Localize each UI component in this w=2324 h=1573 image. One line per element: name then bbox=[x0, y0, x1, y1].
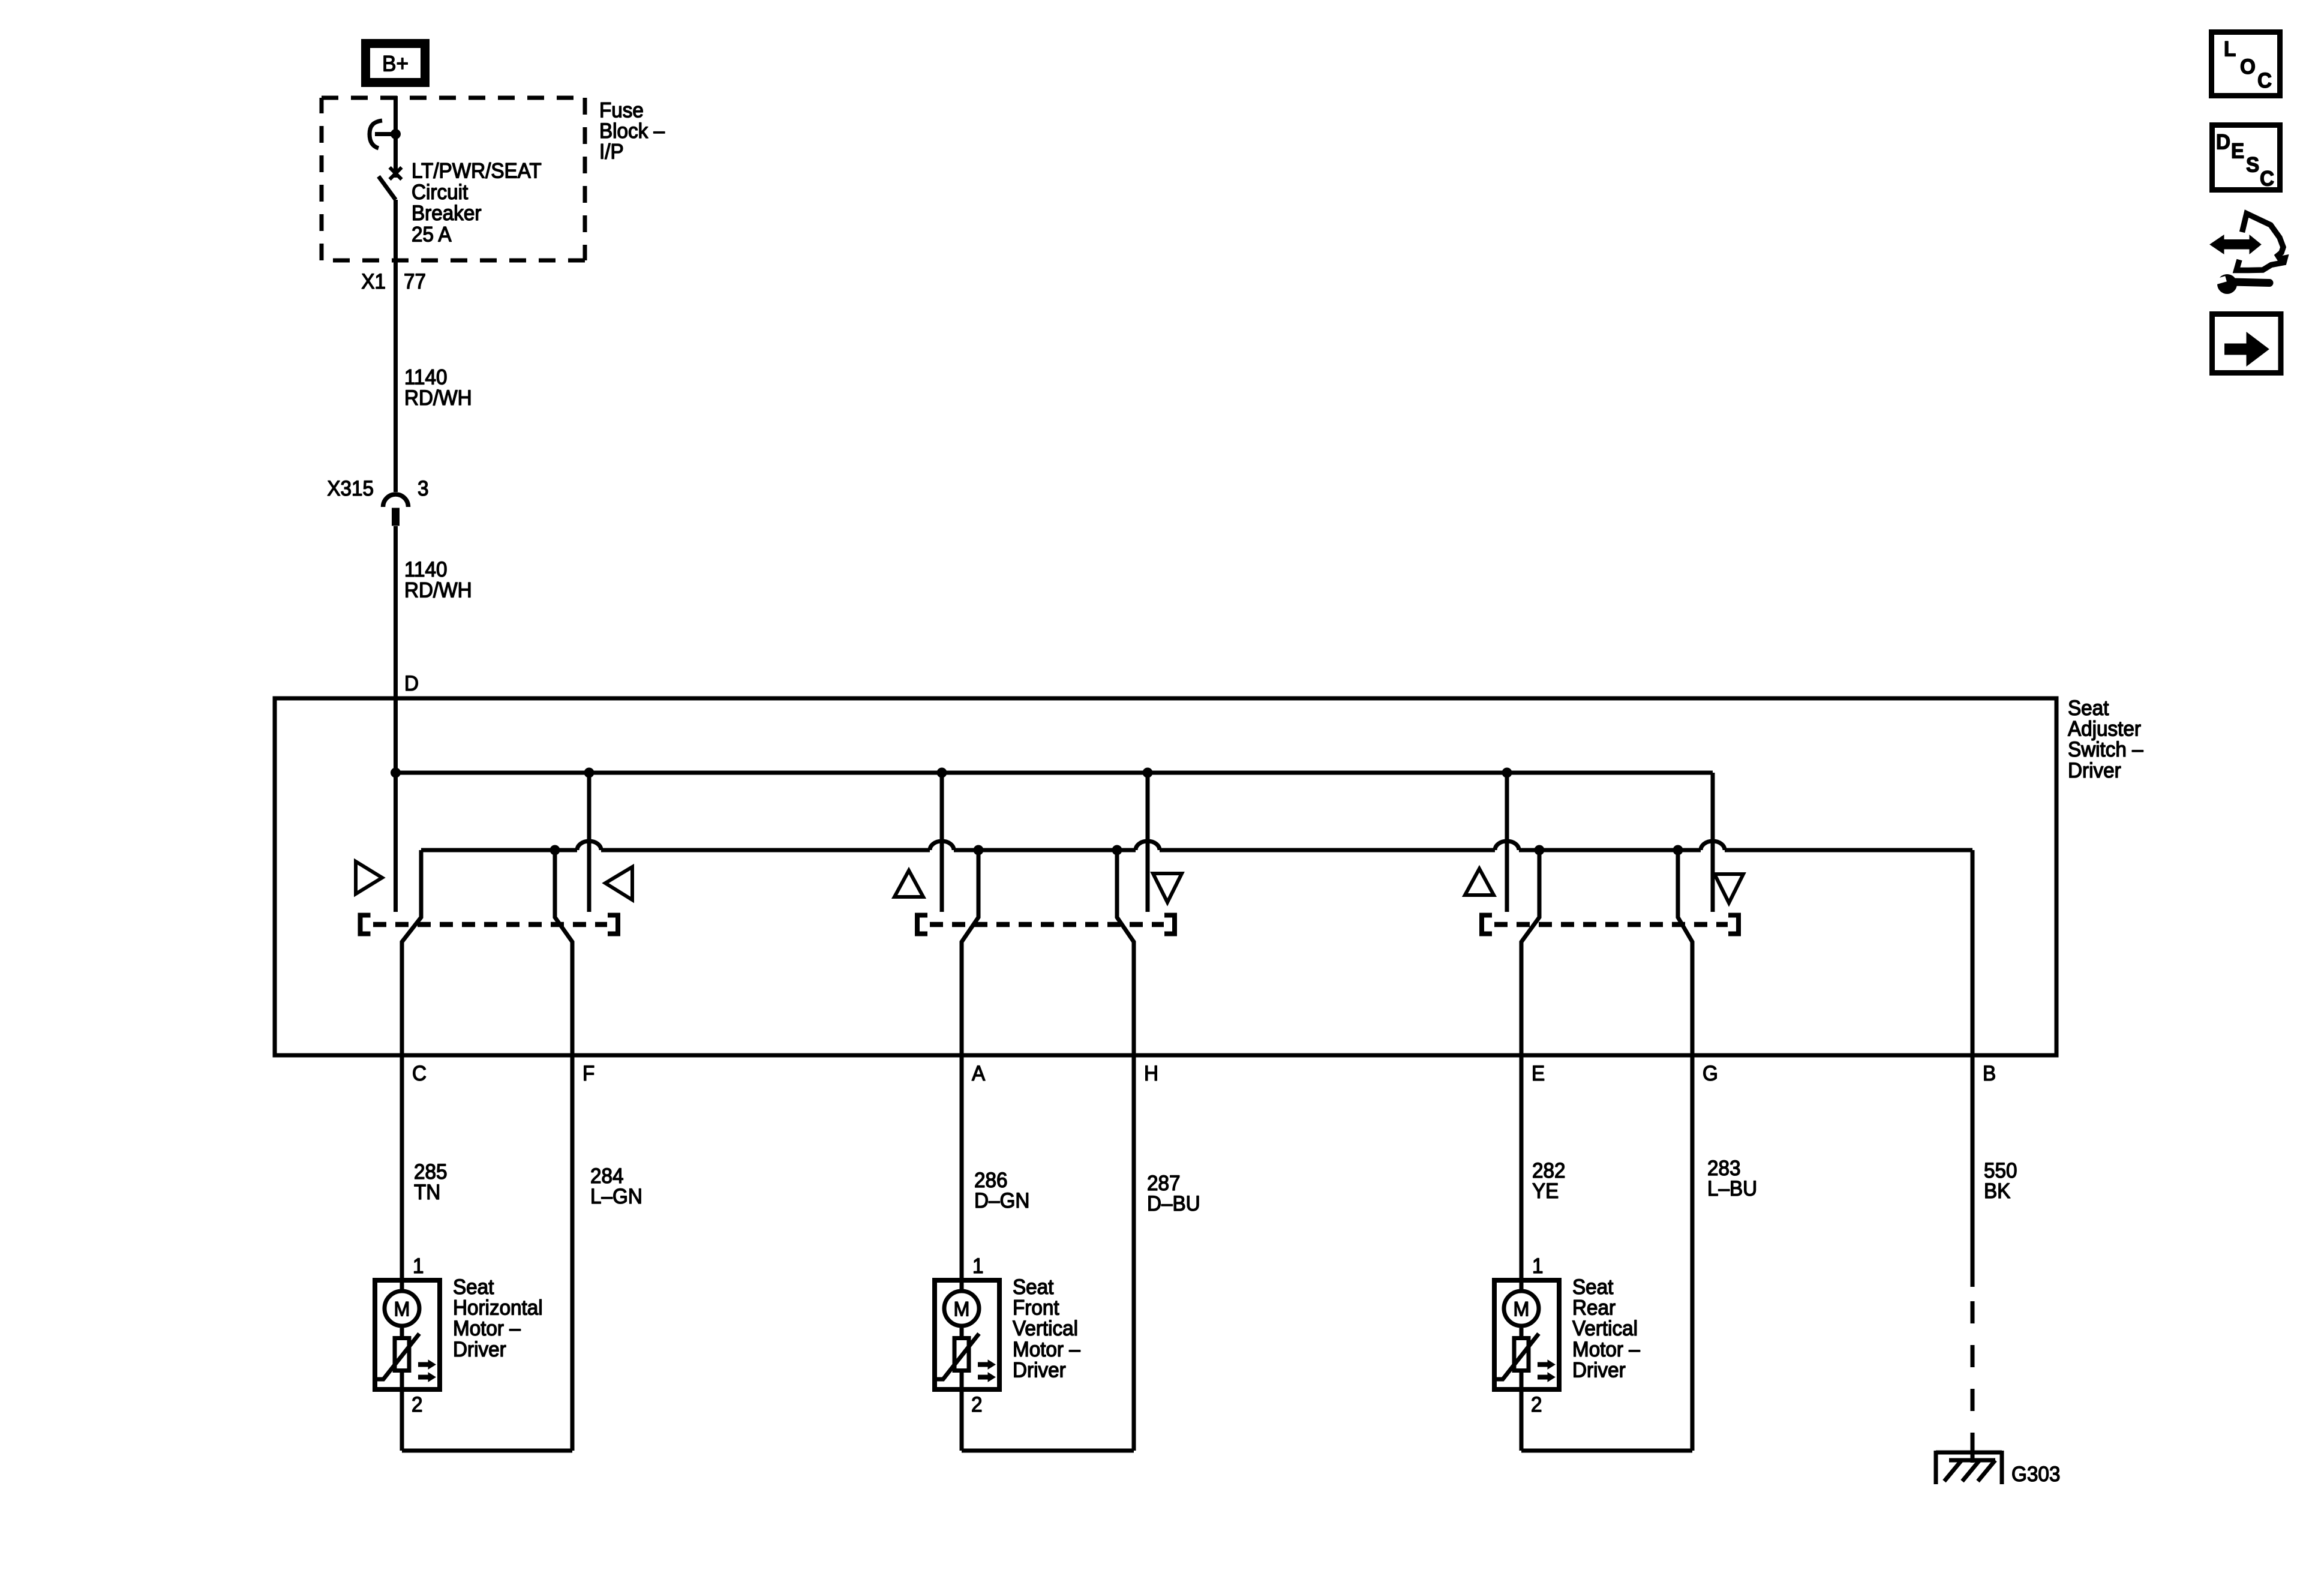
motor M2 armature circle bbox=[944, 1291, 979, 1326]
svg-text:Rear: Rear bbox=[1572, 1296, 1616, 1320]
svg-text:1: 1 bbox=[1532, 1254, 1543, 1278]
svg-text:RD/WH: RD/WH bbox=[404, 386, 472, 410]
svg-text:C: C bbox=[412, 1062, 427, 1085]
wire motor 1 pin 2 down bbox=[400, 1392, 404, 1451]
switch fixed contact A bbox=[940, 773, 944, 912]
svg-text:Circuit: Circuit bbox=[412, 181, 469, 204]
junction dot main bus at H contact bbox=[1143, 768, 1153, 778]
wire motor 3 pin 2 down bbox=[1520, 1392, 1524, 1451]
service/repair wrench icon bbox=[2223, 239, 2250, 250]
svg-text:Front: Front bbox=[1013, 1296, 1059, 1320]
switch arrow front up bbox=[894, 870, 923, 897]
main B+ bus inside switch bbox=[396, 771, 1713, 775]
svg-text:B+: B+ bbox=[382, 51, 409, 76]
svg-text:Driver: Driver bbox=[453, 1338, 506, 1361]
svg-text:Horizontal: Horizontal bbox=[453, 1296, 543, 1320]
wire pin B (solid upper) bbox=[1971, 850, 1975, 1287]
switch arrow front down bbox=[1153, 873, 1182, 902]
junction dot on breaker wire bbox=[391, 129, 401, 139]
svg-text:25 A: 25 A bbox=[412, 223, 452, 247]
switch arrow seat forward bbox=[605, 867, 632, 900]
svg-text:Vertical: Vertical bbox=[1572, 1317, 1638, 1340]
wire motor 2 return bottom bbox=[962, 1449, 1134, 1453]
junction dot main bus at D feed bbox=[391, 768, 401, 778]
switch fixed contact F bbox=[587, 773, 591, 912]
svg-text:Driver: Driver bbox=[1572, 1359, 1626, 1382]
svg-text:H: H bbox=[1144, 1062, 1158, 1085]
motor M1 protector strike-through bbox=[375, 1334, 419, 1379]
switch linkage bracket right (horizontal) bbox=[615, 913, 620, 936]
svg-text:2: 2 bbox=[1531, 1393, 1542, 1416]
motor M2 protector strike-through bbox=[935, 1334, 979, 1379]
wire pin E to motor 3 bbox=[1520, 1055, 1524, 1291]
svg-text:L–BU: L–BU bbox=[1707, 1177, 1757, 1200]
motor M1 direction arrows bbox=[418, 1362, 428, 1367]
motor M3 thermal protector bbox=[1514, 1338, 1529, 1371]
wire X315 to switch pin D bbox=[394, 526, 398, 912]
wire motor 1 return bottom bbox=[402, 1449, 572, 1453]
motor M1 armature circle bbox=[385, 1291, 419, 1326]
svg-text:C: C bbox=[2260, 167, 2274, 191]
switch linkage dashed tie (horizontal) bbox=[373, 922, 607, 927]
circuit breaker CB1 reset arc bbox=[370, 121, 382, 148]
junction dot sub-bus at blade F bbox=[550, 845, 560, 855]
wire B+ feed into fuse block bbox=[394, 96, 398, 178]
svg-text:M: M bbox=[954, 1298, 970, 1321]
svg-text:X1: X1 bbox=[361, 270, 386, 293]
svg-text:Seat: Seat bbox=[1572, 1275, 1614, 1299]
forward arrow legend box bbox=[2212, 314, 2281, 373]
switch linkage bracket left (rear vertical) bbox=[1479, 913, 1484, 936]
fuse block - I/P dashed outline bbox=[322, 96, 585, 100]
junction dot sub-bus at blade G bbox=[1673, 845, 1683, 855]
svg-text:Motor –: Motor – bbox=[1572, 1338, 1640, 1361]
svg-text:Motor –: Motor – bbox=[1013, 1338, 1080, 1361]
svg-text:D: D bbox=[404, 672, 419, 695]
junction dot main bus at E contact bbox=[1502, 768, 1512, 778]
svg-text:Driver: Driver bbox=[2068, 759, 2121, 782]
switch fixed contact D end bbox=[394, 773, 398, 912]
svg-text:RD/WH: RD/WH bbox=[404, 579, 472, 602]
switch blade to pin F bbox=[555, 850, 572, 1055]
svg-text:1140: 1140 bbox=[404, 558, 447, 581]
LOC legend box bbox=[2212, 32, 2280, 96]
svg-text:D–GN: D–GN bbox=[974, 1189, 1029, 1212]
svg-text:Breaker: Breaker bbox=[412, 202, 481, 225]
svg-text:Seat: Seat bbox=[1013, 1275, 1054, 1299]
connector X315 dome bbox=[383, 494, 409, 507]
wire pin B (dashed) bbox=[1971, 1301, 1975, 1440]
motor M3 armature circle bbox=[1504, 1291, 1539, 1326]
switch blade to pin H bbox=[1117, 850, 1134, 1055]
junction dot sub-bus at blade H bbox=[1112, 845, 1122, 855]
svg-text:1: 1 bbox=[972, 1254, 983, 1278]
svg-text:1140: 1140 bbox=[404, 366, 447, 389]
junction dot sub-bus at blade A bbox=[974, 845, 984, 855]
motor M2 case bbox=[935, 1280, 999, 1389]
junction dot main bus at F contact bbox=[584, 768, 594, 778]
svg-text:Vertical: Vertical bbox=[1013, 1317, 1078, 1340]
ground return sub-bus with wire hops bbox=[421, 848, 577, 852]
motor M1 internal wire bbox=[400, 1328, 404, 1392]
motor M2 internal wire bbox=[960, 1328, 964, 1392]
svg-text:D: D bbox=[2216, 131, 2230, 154]
junction dot sub-bus at blade E bbox=[1535, 845, 1545, 855]
svg-text:D–BU: D–BU bbox=[1147, 1192, 1200, 1215]
DESC legend box bbox=[2212, 125, 2280, 190]
switch linkage bracket right (front vertical) bbox=[1172, 913, 1177, 936]
svg-text:77: 77 bbox=[404, 270, 426, 293]
svg-text:Motor –: Motor – bbox=[453, 1317, 521, 1340]
switch linkage bracket right (rear vertical) bbox=[1736, 913, 1741, 936]
motor M2 thermal protector bbox=[954, 1338, 969, 1371]
svg-text:L–GN: L–GN bbox=[590, 1185, 642, 1208]
switch fixed contact E bbox=[1505, 773, 1509, 912]
switch blade to pin C bbox=[402, 850, 421, 1055]
svg-text:O: O bbox=[2240, 55, 2256, 79]
svg-text:Switch –: Switch – bbox=[2068, 738, 2143, 761]
wire pin B to ground bbox=[1971, 1440, 1975, 1463]
switch linkage bracket left (front vertical) bbox=[915, 913, 920, 936]
svg-text:B: B bbox=[1983, 1062, 1996, 1085]
motor M3 case bbox=[1494, 1280, 1559, 1389]
wire pin C to motor 1 bbox=[400, 1055, 404, 1291]
svg-text:L: L bbox=[2224, 38, 2236, 61]
wire pin H to return node bbox=[1132, 1055, 1136, 1451]
svg-text:A: A bbox=[972, 1062, 985, 1085]
seat adjuster switch outline bbox=[275, 698, 2056, 1055]
switch blade to pin E bbox=[1521, 850, 1539, 1055]
switch blade to pin G bbox=[1678, 850, 1692, 1055]
circuit breaker CB1 blade bbox=[379, 176, 396, 200]
svg-text:Fuse: Fuse bbox=[599, 99, 644, 122]
svg-text:Seat: Seat bbox=[453, 1275, 494, 1299]
svg-text:BK: BK bbox=[1984, 1179, 2011, 1203]
svg-text:2: 2 bbox=[412, 1393, 422, 1416]
circuit breaker CB1 contact X bbox=[390, 167, 402, 179]
switch arrow rear up bbox=[1465, 869, 1494, 895]
svg-text:Seat: Seat bbox=[2068, 697, 2109, 720]
svg-text:3: 3 bbox=[418, 477, 428, 500]
switch linkage dashed tie (rear vertical) bbox=[1494, 922, 1728, 927]
junction dot main bus at A contact bbox=[937, 768, 947, 778]
switch blade to pin A bbox=[962, 850, 978, 1055]
switch arrow rear down bbox=[1715, 874, 1743, 903]
svg-text:M: M bbox=[394, 1298, 410, 1321]
ground G303 symbol bbox=[1936, 1451, 2002, 1455]
wire motor 3 return bottom bbox=[1521, 1449, 1692, 1453]
connector X315 stub bbox=[392, 508, 400, 526]
svg-text:I/P: I/P bbox=[599, 140, 624, 164]
motor M3 protector strike-through bbox=[1494, 1334, 1539, 1379]
svg-text:S: S bbox=[2246, 154, 2259, 177]
wire pin A to motor 2 bbox=[960, 1055, 964, 1291]
svg-text:2: 2 bbox=[971, 1393, 982, 1416]
svg-text:1: 1 bbox=[413, 1254, 424, 1278]
motor M3 direction arrows bbox=[1538, 1362, 1548, 1367]
svg-text:Adjuster: Adjuster bbox=[2068, 718, 2141, 741]
motor M3 internal wire bbox=[1520, 1328, 1524, 1392]
motor M2 direction arrows bbox=[978, 1362, 988, 1367]
switch arrow seat rearward bbox=[356, 861, 382, 894]
motor M1 case bbox=[375, 1280, 440, 1389]
svg-text:F: F bbox=[582, 1062, 594, 1085]
wire pin F to return node bbox=[571, 1055, 575, 1451]
svg-text:LT/PWR/SEAT: LT/PWR/SEAT bbox=[412, 160, 542, 183]
switch linkage dashed tie (front vertical) bbox=[930, 922, 1164, 927]
svg-text:C: C bbox=[2257, 69, 2272, 92]
svg-text:E: E bbox=[2231, 140, 2244, 163]
svg-text:G303: G303 bbox=[2011, 1463, 2060, 1486]
switch linkage bracket left (horizontal) bbox=[358, 913, 363, 936]
wire motor 2 pin 2 down bbox=[960, 1392, 964, 1451]
svg-text:X315: X315 bbox=[327, 477, 374, 500]
wire breaker to connector X315 bbox=[394, 200, 398, 492]
svg-text:M: M bbox=[1514, 1298, 1530, 1321]
svg-text:Block –: Block – bbox=[599, 119, 665, 143]
svg-text:TN: TN bbox=[414, 1181, 440, 1204]
motor M1 thermal protector bbox=[395, 1338, 409, 1371]
switch fixed contact H bbox=[1146, 773, 1150, 912]
wire pin G to return node bbox=[1691, 1055, 1695, 1451]
svg-text:E: E bbox=[1532, 1062, 1545, 1085]
switch fixed contact G (bus end turns down) bbox=[1711, 773, 1715, 912]
svg-text:YE: YE bbox=[1532, 1179, 1559, 1203]
svg-text:Driver: Driver bbox=[1013, 1359, 1066, 1382]
battery feed B+ terminal box bbox=[366, 44, 425, 83]
svg-text:G: G bbox=[1703, 1062, 1718, 1085]
